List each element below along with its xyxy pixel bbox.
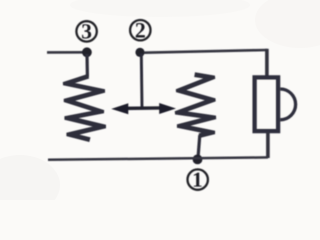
- wire: right branch vertical from load bottom to bottom wire: [266, 132, 270, 158]
- resistor: left half of potentiometer element: [63, 74, 106, 142]
- terminal label 3: [76, 21, 96, 41]
- junction dot at terminal 2: [135, 48, 144, 57]
- load: side bump: [280, 89, 295, 120]
- wire: wiper lead down from terminal 2: [140, 54, 144, 108]
- wire: top-right segment from terminal 2 to load branch: [144, 50, 267, 53]
- wiper arrowhead left: [111, 103, 128, 114]
- terminal label 1: [188, 169, 208, 189]
- wire: top-left segment to terminal 3: [47, 51, 85, 54]
- load: rectangle body (output device): [255, 77, 279, 131]
- wire: bottom segment: [48, 157, 268, 159]
- wire: stub from right resistor down to terminal 1 dot: [198, 135, 200, 158]
- wire: right branch vertical down to load top: [265, 49, 269, 77]
- resistor: right half of potentiometer element: [175, 72, 217, 138]
- junction dot at terminal 3: [82, 47, 92, 57]
- wire: stub from terminal 3 dot down to left resistor: [85, 54, 89, 77]
- terminal label 2: [130, 20, 150, 40]
- wiper arrowhead right: [159, 103, 176, 114]
- junction dot at terminal 1: [193, 155, 203, 165]
- wiper arrow shaft: [124, 106, 162, 110]
